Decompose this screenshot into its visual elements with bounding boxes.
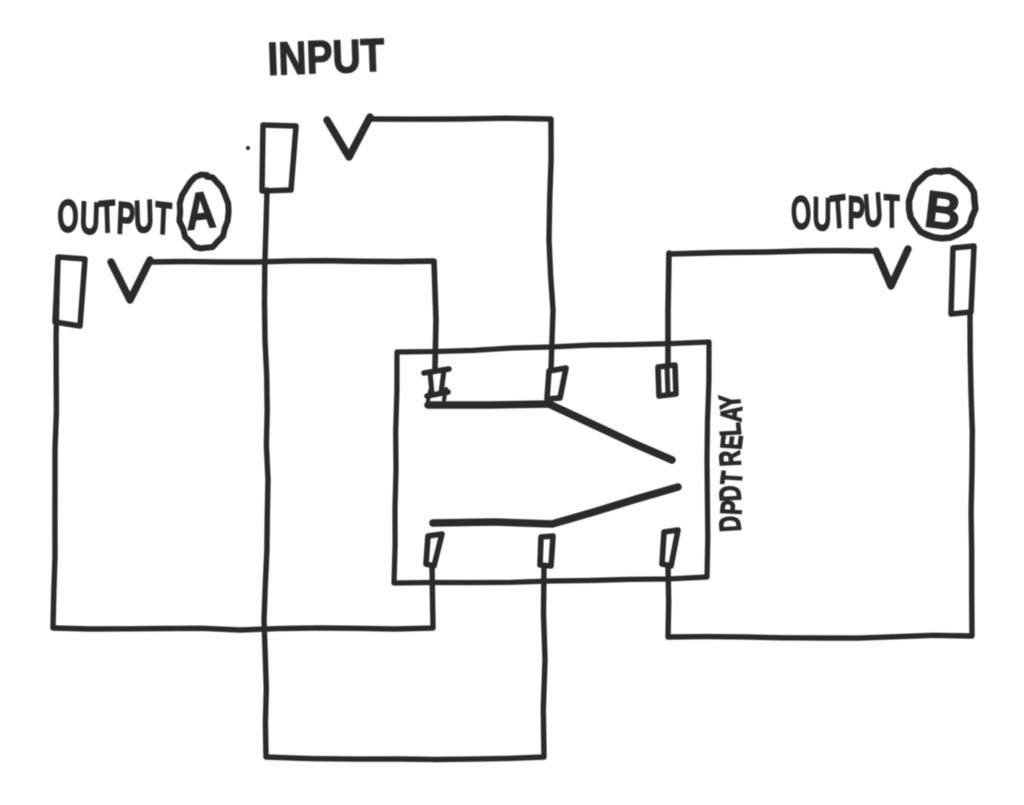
svg-text:A: A	[183, 182, 218, 242]
svg-text:DPDT RELAY: DPDT RELAY	[714, 393, 750, 533]
svg-text:B: B	[922, 180, 965, 242]
svg-text:INPUT: INPUT	[267, 29, 386, 85]
